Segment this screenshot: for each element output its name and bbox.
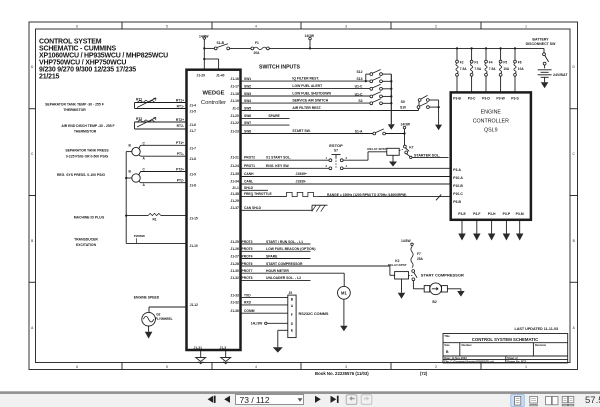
- svg-text:2: 2: [346, 156, 348, 160]
- svg-text:J1939-: J1939-: [296, 180, 307, 184]
- svg-text:J1-32: J1-32: [230, 276, 239, 280]
- svg-text:20A: 20A: [254, 51, 261, 55]
- svg-text:14/3W: 14/3W: [199, 34, 209, 38]
- svg-text:PW/BW: PW/BW: [134, 234, 145, 238]
- svg-text:PROT1: PROT1: [244, 164, 255, 168]
- svg-text:J1-25: J1-25: [230, 240, 239, 244]
- svg-text:Title: Title: [444, 334, 450, 338]
- svg-text:ENGINE: ENGINE: [481, 110, 502, 116]
- svg-text:PT2+: PT2+: [176, 167, 184, 171]
- svg-text:3: 3: [326, 164, 328, 168]
- svg-text:J1-20: J1-20: [230, 114, 239, 118]
- svg-text:C: C: [143, 141, 146, 145]
- svg-text:J1-21: J1-21: [230, 156, 239, 160]
- svg-text:ENGINE SPEED: ENGINE SPEED: [134, 295, 160, 299]
- svg-text:SW7: SW7: [244, 121, 251, 125]
- svg-text:3: 3: [345, 365, 347, 369]
- svg-text:XP1060WCU / HP935WCU / MHP825W: XP1060WCU / HP935WCU / MHP825WCU: [39, 52, 168, 59]
- svg-text:UNLOADER SOL. - L2: UNLOADER SOL. - L2: [266, 276, 301, 280]
- svg-text:CANL: CANL: [244, 180, 253, 184]
- svg-text:B2: B2: [432, 300, 436, 304]
- svg-text:CONTROLLER: CONTROLLER: [473, 119, 509, 125]
- svg-text:F1: F1: [255, 41, 259, 45]
- svg-text:B: B: [129, 143, 132, 147]
- svg-text:RT1-: RT1-: [177, 104, 184, 108]
- svg-text:THERMISTOR: THERMISTOR: [63, 108, 86, 112]
- svg-text:J1-27: J1-27: [230, 254, 239, 258]
- svg-text:RT2+: RT2+: [176, 118, 184, 122]
- svg-text:J1-34: J1-34: [230, 180, 239, 184]
- svg-text:B: B: [446, 350, 449, 354]
- svg-text:J1-9: J1-9: [190, 173, 197, 177]
- svg-text:J1-40: J1-40: [216, 73, 225, 77]
- svg-text:F4: F4: [489, 61, 493, 65]
- svg-text:J1-6: J1-6: [190, 123, 197, 127]
- svg-text:S1-A: S1-A: [355, 129, 363, 133]
- svg-text:Number: Number: [462, 343, 472, 347]
- svg-text:P3-A: P3-A: [453, 168, 461, 172]
- svg-text:J1-22: J1-22: [230, 121, 239, 125]
- svg-text:J1-23: J1-23: [230, 129, 239, 133]
- svg-text:J1-33: J1-33: [230, 293, 239, 297]
- svg-text:J1-31: J1-31: [194, 346, 203, 350]
- svg-text:0-225 PSIG OR 0-500 PSIG: 0-225 PSIG OR 0-500 PSIG: [66, 155, 109, 159]
- svg-text:U1-C: U1-C: [355, 85, 363, 89]
- svg-text:J1-8: J1-8: [190, 183, 197, 187]
- svg-text:SW8: SW8: [244, 129, 251, 133]
- svg-text:J1-36: J1-36: [230, 309, 239, 313]
- svg-text:S10: S10: [400, 105, 406, 109]
- svg-text:24V/BAT: 24V/BAT: [553, 73, 568, 77]
- svg-text:J1-12: J1-12: [190, 303, 198, 307]
- svg-text:RT1+: RT1+: [176, 98, 184, 102]
- svg-text:J1-1: J1-1: [232, 186, 239, 190]
- svg-text:(72): (72): [420, 371, 428, 376]
- svg-text:B: B: [31, 239, 33, 243]
- svg-text:M1: M1: [341, 291, 347, 296]
- svg-text:RELAY-SPST: RELAY-SPST: [367, 147, 386, 151]
- svg-text:A: A: [31, 326, 34, 330]
- svg-text:P3-M: P3-M: [516, 212, 524, 216]
- svg-text:P3-D: P3-D: [482, 96, 490, 100]
- svg-text:J1-7: J1-7: [190, 146, 197, 150]
- svg-text:F7: F7: [417, 252, 421, 256]
- svg-text:S13: S13: [356, 77, 362, 81]
- svg-text:RXD: RXD: [244, 301, 252, 305]
- svg-text:TXD: TXD: [244, 293, 251, 297]
- svg-text:S7: S7: [334, 149, 338, 153]
- svg-text:J1-30: J1-30: [230, 269, 239, 273]
- svg-text:BATTERY: BATTERY: [532, 37, 549, 41]
- svg-text:U1-C: U1-C: [355, 92, 363, 96]
- svg-text:REG. SYS PRESS. 0-100 PSIG: REG. SYS PRESS. 0-100 PSIG: [57, 173, 105, 177]
- svg-text:J1-29: J1-29: [197, 73, 206, 77]
- svg-text:MACHINE ID PLUG: MACHINE ID PLUG: [74, 215, 105, 219]
- svg-text:CAN SHLD: CAN SHLD: [244, 206, 262, 210]
- svg-text:A: A: [573, 326, 576, 330]
- svg-text:RT2: RT2: [136, 117, 142, 121]
- svg-text:J1-32: J1-32: [230, 301, 239, 305]
- svg-text:Sheet of: Sheet of: [507, 356, 517, 360]
- svg-text:P3-P: P3-P: [503, 212, 511, 216]
- svg-text:PROT4: PROT4: [242, 254, 253, 258]
- svg-text:P10-C: P10-C: [453, 192, 463, 196]
- svg-text:5: 5: [166, 365, 168, 369]
- svg-text:J1-5: J1-5: [190, 109, 197, 113]
- svg-text:A: A: [143, 183, 146, 187]
- svg-text:SW1: SW1: [244, 77, 251, 81]
- svg-text:J1-2: J1-2: [232, 106, 239, 110]
- svg-text:J1-7: J1-7: [190, 129, 197, 133]
- svg-text:D: D: [291, 322, 294, 326]
- svg-text:SCHEMATIC - CUMMINS: SCHEMATIC - CUMMINS: [39, 45, 116, 52]
- svg-text:7.5A: 7.5A: [474, 67, 481, 71]
- svg-text:PROT5: PROT5: [242, 247, 253, 251]
- svg-text:1: 1: [326, 156, 328, 160]
- svg-text:4: 4: [346, 164, 348, 168]
- svg-text:F5: F5: [503, 61, 507, 65]
- svg-text:HOUR METER: HOUR METER: [266, 269, 289, 273]
- svg-text:LAST UPDATED 11-11-03: LAST UPDATED 11-11-03: [515, 327, 559, 331]
- svg-text:PROT8: PROT8: [242, 276, 253, 280]
- svg-text:A: A: [291, 304, 294, 308]
- svg-text:P3-W: P3-W: [496, 96, 505, 100]
- svg-text:B: B: [129, 170, 132, 174]
- svg-text:PROT2: PROT2: [244, 156, 255, 160]
- svg-text:COMM: COMM: [244, 309, 255, 313]
- svg-text:P3-E: P3-E: [458, 212, 466, 216]
- svg-text:4: 4: [255, 365, 257, 369]
- svg-text:PT1-: PT1-: [177, 152, 184, 156]
- svg-text:SHLD: SHLD: [244, 186, 254, 190]
- svg-text:PROT7: PROT7: [242, 269, 253, 273]
- svg-text:PT1+: PT1+: [176, 141, 184, 145]
- svg-text:F6: F6: [518, 61, 522, 65]
- svg-text:ENG. KEY SW.: ENG. KEY SW.: [266, 164, 289, 168]
- svg-text:S3: S3: [358, 99, 362, 103]
- svg-text:R1: R1: [153, 218, 157, 222]
- svg-text:WEDGE: WEDGE: [203, 91, 225, 97]
- svg-text:RT1: RT1: [136, 97, 142, 101]
- svg-text:21/215: 21/215: [39, 73, 60, 80]
- svg-text:VHP750WCU / XHP750WCU: VHP750WCU / XHP750WCU: [39, 59, 126, 66]
- svg-text:SERVICE AIR SWITCH: SERVICE AIR SWITCH: [292, 99, 328, 103]
- svg-text:J1-10: J1-10: [190, 244, 198, 248]
- svg-text:3: 3: [345, 24, 347, 28]
- svg-text:J1-37: J1-37: [230, 206, 239, 210]
- svg-text:J1-17: J1-17: [230, 84, 239, 88]
- svg-text:25A: 25A: [417, 257, 424, 261]
- svg-text:2: 2: [435, 24, 437, 28]
- svg-text:START COMPRESSOR: START COMPRESSOR: [266, 262, 303, 266]
- svg-text:J1-19: J1-19: [230, 99, 239, 103]
- svg-text:D: D: [573, 65, 576, 69]
- svg-text:F3: F3: [474, 61, 478, 65]
- svg-text:5: 5: [166, 24, 168, 28]
- svg-text:G2: G2: [156, 313, 160, 317]
- svg-text:J1-29: J1-29: [230, 199, 239, 203]
- svg-text:P10-A: P10-A: [453, 176, 463, 180]
- svg-text:7.5A: 7.5A: [460, 67, 467, 71]
- svg-text:J1-28: J1-28: [230, 262, 239, 266]
- svg-text:2: 2: [435, 365, 437, 369]
- svg-text:ESTOP: ESTOP: [329, 143, 343, 148]
- svg-text:P3-C: P3-C: [468, 96, 476, 100]
- svg-text:SWITCH INPUTS: SWITCH INPUTS: [259, 64, 300, 70]
- svg-text:C: C: [143, 168, 146, 172]
- svg-text:A: A: [143, 157, 146, 161]
- svg-text:D: D: [31, 65, 34, 69]
- svg-text:J1-15: J1-15: [190, 216, 198, 220]
- svg-text:LOW FUEL ALERT: LOW FUEL ALERT: [292, 84, 323, 88]
- svg-text:SW3: SW3: [244, 92, 251, 96]
- svg-text:B: B: [573, 239, 575, 243]
- svg-text:SW6: SW6: [244, 114, 251, 118]
- svg-text:SEPARATOR TANK TEMP -30 - 255: SEPARATOR TANK TEMP -30 - 255 F: [45, 103, 104, 107]
- svg-text:Size: Size: [444, 343, 450, 347]
- svg-text:RT2-: RT2-: [177, 124, 184, 128]
- svg-text:START SW.: START SW.: [292, 129, 310, 133]
- svg-text:START COMPRESSOR: START COMPRESSOR: [421, 272, 464, 277]
- svg-text:PROT6: PROT6: [242, 262, 253, 266]
- svg-text:CANH: CANH: [244, 172, 254, 176]
- svg-text:P3-F: P3-F: [473, 212, 480, 216]
- svg-text:EXCITATION: EXCITATION: [76, 243, 97, 247]
- svg-text:J1-26: J1-26: [230, 247, 239, 251]
- svg-text:TRANSDUCER: TRANSDUCER: [74, 237, 98, 241]
- svg-text:S12: S12: [356, 70, 362, 74]
- svg-text:P5-B: P5-B: [453, 200, 461, 204]
- svg-text:10A: 10A: [503, 67, 510, 71]
- svg-text:C: C: [573, 152, 576, 156]
- svg-text:QSL9: QSL9: [484, 128, 498, 134]
- svg-text:Revision: Revision: [535, 343, 547, 347]
- svg-text:Date: 11-Nov-2003: Date: 11-Nov-2003: [444, 356, 467, 360]
- svg-text:LOW FUEL BEACON (OPTION): LOW FUEL BEACON (OPTION): [266, 247, 315, 251]
- svg-text:4: 4: [255, 24, 257, 28]
- svg-text:J1-24: J1-24: [230, 164, 239, 168]
- svg-text:6: 6: [76, 365, 78, 369]
- svg-text:14/3W: 14/3W: [401, 122, 411, 126]
- svg-text:J1-38: J1-38: [230, 192, 239, 196]
- svg-text:STARTER SOL.: STARTER SOL.: [414, 153, 440, 157]
- svg-text:F: F: [291, 313, 293, 317]
- svg-text:J5: J5: [288, 291, 292, 295]
- svg-text:J1-16: J1-16: [230, 77, 239, 81]
- svg-text:SPARE: SPARE: [268, 114, 280, 118]
- svg-text:J1-18: J1-18: [230, 92, 239, 96]
- svg-text:Drawn By: PCS: Drawn By: PCS: [507, 359, 526, 363]
- svg-text:LOW FUEL SHUTDOWN: LOW FUEL SHUTDOWN: [292, 92, 331, 96]
- svg-text:7.5A: 7.5A: [489, 67, 496, 71]
- svg-text:START / RUN SOL. - L1: START / RUN SOL. - L1: [266, 240, 303, 244]
- svg-text:S9: S9: [401, 100, 405, 104]
- svg-text:SW4: SW4: [244, 99, 251, 103]
- svg-text:9/230 9/270 9/300 12/235 1: 9/230 9/270 9/300 12/235 17/235: [39, 66, 136, 73]
- svg-text:File: C:\Cummins\Xseries\S2M35: File: C:\Cummins\Xseries\S2M35576.sch: [444, 359, 494, 363]
- svg-text:J1939+: J1939+: [296, 172, 307, 176]
- svg-text:P3-H: P3-H: [488, 212, 496, 216]
- svg-text:1: 1: [525, 365, 527, 369]
- svg-text:10A: 10A: [518, 67, 525, 71]
- svg-text:6: 6: [76, 24, 78, 28]
- svg-text:14L/3W: 14L/3W: [251, 321, 263, 325]
- svg-text:S1-B: S1-B: [217, 41, 225, 45]
- svg-text:SEPARATOR TANK PRESS: SEPARATOR TANK PRESS: [65, 149, 109, 153]
- svg-text:14/3W: 14/3W: [401, 239, 411, 243]
- svg-text:DISCONNECT SW: DISCONNECT SW: [526, 42, 556, 46]
- svg-text:C: C: [31, 152, 34, 156]
- svg-text:CONTROL SYSTEM: CONTROL SYSTEM: [39, 38, 102, 45]
- svg-text:1: 1: [525, 24, 527, 28]
- svg-text:J1-8: J1-8: [190, 157, 197, 161]
- svg-text:P3-S: P3-S: [511, 96, 519, 100]
- svg-text:Book No. 22235576 (11/03): Book No. 22235576 (11/03): [315, 371, 369, 376]
- svg-text:AIR END DISCH TEMP -30 - 255: AIR END DISCH TEMP -30 - 255 F: [61, 124, 114, 128]
- svg-text:AIR FILTER REST.: AIR FILTER REST.: [292, 106, 321, 110]
- svg-text:J1-3: J1-3: [220, 346, 227, 350]
- svg-text:J1-35: J1-35: [230, 172, 239, 176]
- svg-text:FREQ THROTTLE: FREQ THROTTLE: [244, 192, 272, 196]
- svg-text:SPARE: SPARE: [266, 254, 278, 258]
- svg-text:PROT3: PROT3: [242, 240, 253, 244]
- svg-text:SW2: SW2: [244, 84, 251, 88]
- svg-text:THERMISTOR: THERMISTOR: [74, 130, 97, 134]
- svg-text:CONTROL SYSTEM SCHEMATIC: CONTROL SYSTEM SCHEMATIC: [472, 337, 538, 342]
- svg-text:SW5: SW5: [244, 106, 251, 110]
- svg-text:RELAY-DPST: RELAY-DPST: [388, 263, 407, 267]
- svg-text:RS232C COMMS: RS232C COMMS: [299, 312, 329, 316]
- svg-text:B: B: [291, 297, 294, 301]
- svg-text:RANGE = 150Hz (1200 RPM) TO 37: RANGE = 150Hz (1200 RPM) TO 375Hz (18000…: [327, 193, 406, 197]
- svg-text:FLYWHEEL: FLYWHEEL: [155, 317, 172, 321]
- svg-text:X1 START SOL.: X1 START SOL.: [266, 156, 291, 160]
- svg-text:P3-B: P3-B: [453, 96, 461, 100]
- svg-text:J1-4: J1-4: [190, 103, 197, 107]
- svg-text:F2: F2: [460, 61, 464, 65]
- svg-text:K7: K7: [409, 146, 413, 150]
- svg-text:IQ FILTER REST.: IQ FILTER REST.: [292, 77, 319, 81]
- svg-text:PT2-: PT2-: [177, 178, 184, 182]
- svg-text:P10-B: P10-B: [453, 184, 463, 188]
- svg-text:E: E: [291, 329, 293, 333]
- svg-text:Controller: Controller: [201, 100, 226, 106]
